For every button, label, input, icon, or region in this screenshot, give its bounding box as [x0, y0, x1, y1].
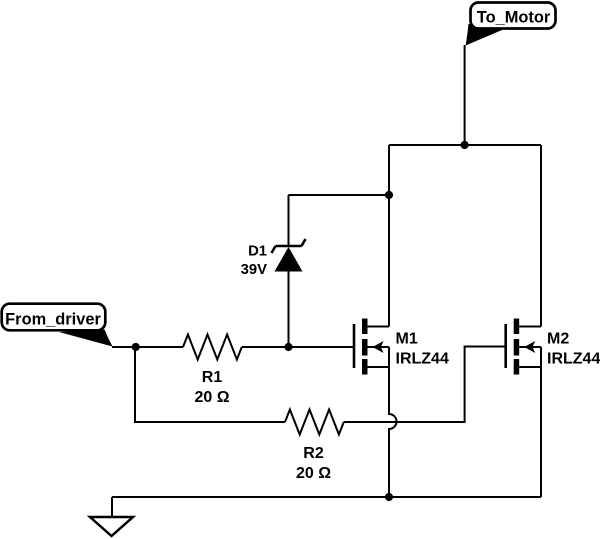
- svg-text:To_Motor: To_Motor: [477, 9, 551, 27]
- wire From_driver down to R2: [135, 347, 285, 422]
- wire D1 cathode lead: [288, 195, 290, 246]
- wire M1 drain vertical: [388, 145, 390, 327]
- junction drain node / D1 branch: [385, 191, 393, 199]
- svg-text:20 Ω: 20 Ω: [194, 389, 229, 406]
- junction D1 / gate wire: [284, 343, 292, 351]
- resistor R1 zigzag: [183, 335, 242, 360]
- ground symbol: [90, 517, 133, 536]
- wire drain to D1 cathode horizontal: [289, 194, 390, 196]
- resistor R2 zigzag: [285, 410, 344, 435]
- junction From_driver / R2 branch: [132, 343, 140, 351]
- wire To_Motor to top rail: [464, 45, 466, 145]
- svg-text:R1: R1: [202, 369, 223, 386]
- wire M2 source to ground: [540, 367, 542, 497]
- svg-text:D1: D1: [248, 244, 267, 260]
- svg-text:20 Ω: 20 Ω: [296, 465, 331, 482]
- svg-text:IRLZ44: IRLZ44: [396, 351, 449, 368]
- wire D1 anode lead: [288, 272, 290, 348]
- wire M1 source to ground (with hop over R2 wire): [389, 367, 397, 497]
- transistor M1 (IRLZ44 NMOS): [354, 319, 389, 375]
- wire From_driver to R1: [112, 346, 183, 348]
- wire R2 to M2 gate riser: [344, 347, 506, 423]
- junction M1 source / ground rail: [385, 493, 393, 501]
- wire ground rail: [112, 496, 541, 498]
- svg-text:From_driver: From_driver: [5, 311, 101, 329]
- node From_driver flag: [2, 304, 113, 347]
- junction top rail / To_Motor: [461, 141, 469, 149]
- svg-text:R2: R2: [303, 445, 324, 462]
- svg-text:39V: 39V: [241, 262, 267, 278]
- svg-text:M1: M1: [396, 331, 418, 348]
- wire top rail: [389, 144, 541, 146]
- wire ground stub: [111, 497, 113, 517]
- svg-text:IRLZ44: IRLZ44: [547, 351, 600, 368]
- svg-text:M2: M2: [547, 331, 569, 348]
- node To_Motor flag: [466, 3, 556, 46]
- wire R1 to M1 gate: [242, 346, 354, 348]
- transistor M2 (IRLZ44 NMOS): [506, 319, 541, 375]
- diode D1 (zener, cathode up): [272, 239, 306, 272]
- wire M2 drain vertical: [540, 145, 542, 327]
